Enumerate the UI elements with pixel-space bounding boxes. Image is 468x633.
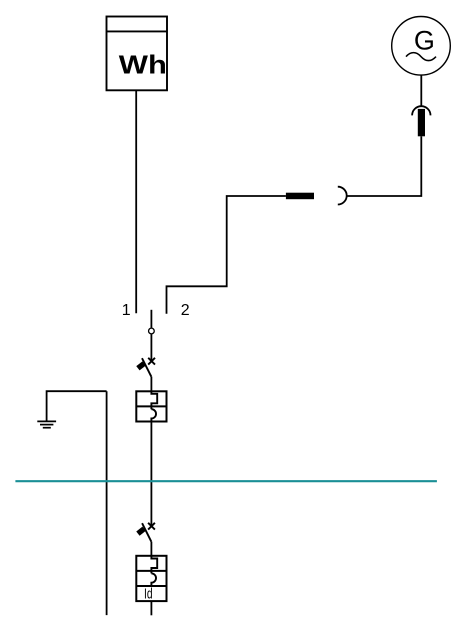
svg-text:G: G — [414, 26, 435, 56]
generator AC sine wave — [406, 53, 436, 61]
changeover switch pivot circle — [149, 328, 155, 334]
thermal release bump (Q2 middle section) — [151, 573, 156, 586]
circuit breaker Q2 contact cross — [148, 523, 155, 530]
svg-text:1: 1 — [122, 302, 131, 319]
protection module box (Q1) — [136, 391, 166, 421]
folio boundary line (teal) — [15, 480, 437, 482]
circuit breaker Q1 drive block — [136, 361, 145, 370]
female connector socket (plugged, opening down) — [412, 106, 430, 115]
wire blade to module — [150, 377, 152, 392]
female connector socket (opening left) — [338, 187, 347, 205]
wire from pin to node 2 — [167, 196, 286, 314]
magnetic release hook (Q1 top section) — [151, 391, 157, 409]
kWh energy meter P1 — [107, 17, 168, 91]
PE conductor down — [106, 391, 108, 615]
svg-text:Id: Id — [144, 586, 153, 602]
svg-text:Wh: Wh — [119, 51, 167, 80]
earth wire up and right — [47, 391, 107, 421]
wire module Q1 to breaker Q2 — [150, 422, 152, 527]
changeover switch moving wire — [150, 310, 152, 328]
circuit breaker Q2 drive block — [136, 527, 145, 536]
circuit breaker Q1 blade — [142, 358, 151, 377]
male connector pin (vertical thick bar) — [418, 109, 425, 136]
circuit breaker Q2 blade — [142, 523, 151, 542]
wire pivot to breaker Q1 — [150, 334, 152, 361]
differential protection module box (Q2) — [136, 556, 166, 601]
generator G — [392, 17, 451, 76]
circuit breaker Q1 contact cross — [148, 358, 155, 365]
wire from meter to node 1 — [135, 90, 137, 313]
magnetic release hook (Q2 top section) — [151, 556, 157, 574]
earth symbol — [37, 421, 56, 427]
wire blade to module Q2 — [150, 542, 152, 556]
male connector pin (horizontal thick bar) — [286, 193, 314, 200]
wire generator to connector — [420, 75, 422, 107]
wire below module Q2 — [150, 601, 152, 615]
thermal release bump (Q1 bottom section) — [151, 409, 156, 421]
wire connector down and left to socket 2 — [347, 136, 421, 196]
svg-text:2: 2 — [181, 302, 190, 319]
